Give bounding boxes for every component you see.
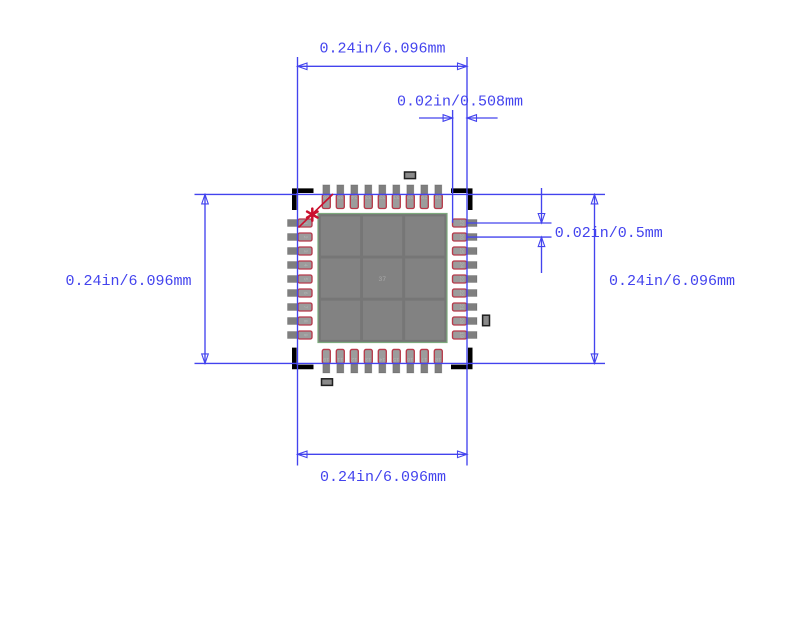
svg-text:0.24in/6.096mm: 0.24in/6.096mm bbox=[609, 273, 735, 290]
svg-text:27: 27 bbox=[458, 220, 464, 226]
pad 4 bbox=[288, 261, 313, 269]
svg-text:5: 5 bbox=[302, 277, 308, 280]
svg-text:0.24in/6.096mm: 0.24in/6.096mm bbox=[319, 41, 445, 58]
svg-text:12: 12 bbox=[351, 356, 357, 362]
svg-text:20: 20 bbox=[458, 318, 464, 324]
pad 24 bbox=[453, 261, 478, 269]
dimension top 0.24in/6.096mm bbox=[298, 41, 468, 70]
pad 30 bbox=[406, 185, 414, 209]
svg-text:22: 22 bbox=[458, 290, 464, 296]
pad 34 bbox=[350, 185, 358, 209]
pad 7 bbox=[288, 303, 313, 311]
silkscreen corner bracket bottom-right bbox=[451, 348, 473, 370]
extension line left vertical bbox=[297, 57, 299, 466]
pad 12 bbox=[350, 349, 358, 373]
dimension bottom 0.24in/6.096mm bbox=[298, 451, 468, 486]
silkscreen corner bracket top-left bbox=[292, 188, 314, 210]
extension line top horizontal bbox=[195, 193, 606, 195]
svg-text:23: 23 bbox=[458, 276, 464, 282]
pad 14 bbox=[378, 349, 386, 373]
pad 29 bbox=[420, 185, 428, 209]
thermal pad 37 bbox=[318, 214, 447, 343]
pad 8 bbox=[288, 317, 313, 325]
svg-text:4: 4 bbox=[302, 263, 308, 266]
svg-text:9: 9 bbox=[302, 333, 308, 336]
pad 31 bbox=[392, 185, 400, 209]
svg-text:15: 15 bbox=[393, 356, 399, 362]
extension line right vertical bbox=[466, 57, 468, 466]
svg-text:17: 17 bbox=[421, 356, 427, 362]
svg-text:6: 6 bbox=[302, 291, 308, 294]
svg-text:37: 37 bbox=[378, 276, 386, 283]
svg-text:0.24in/6.096mm: 0.24in/6.096mm bbox=[320, 469, 446, 486]
pad 9 bbox=[288, 331, 313, 339]
dimension pad length 0.02in/0.508mm bbox=[397, 94, 523, 122]
pad 32 bbox=[378, 185, 386, 209]
svg-text:26: 26 bbox=[458, 234, 464, 240]
pad 16 bbox=[406, 349, 414, 373]
pad 15 bbox=[392, 349, 400, 373]
component pad right (near pin 21) bbox=[483, 315, 490, 326]
dimension left 0.24in/6.096mm bbox=[65, 194, 208, 363]
pad 17 bbox=[420, 349, 428, 373]
pad 18 bbox=[434, 349, 442, 373]
pad 1 bbox=[288, 219, 313, 227]
pad 23 bbox=[453, 275, 478, 283]
pad 20 bbox=[453, 317, 478, 325]
silkscreen corner bracket bottom-left bbox=[292, 348, 314, 370]
extension line pad-toe vertical bbox=[452, 110, 454, 223]
pad 3 bbox=[288, 247, 313, 255]
pad 5 bbox=[288, 275, 313, 283]
svg-text:10: 10 bbox=[323, 356, 329, 362]
svg-text:0.24in/6.096mm: 0.24in/6.096mm bbox=[65, 273, 191, 290]
pad 33 bbox=[364, 185, 372, 209]
svg-text:18: 18 bbox=[435, 356, 441, 362]
svg-text:0.02in/0.508mm: 0.02in/0.508mm bbox=[397, 94, 523, 111]
pad 35 bbox=[336, 185, 344, 209]
pad 13 bbox=[364, 349, 372, 373]
svg-text:16: 16 bbox=[407, 356, 413, 362]
pad 21 bbox=[453, 303, 478, 311]
pad 25 bbox=[453, 247, 478, 255]
svg-text:25: 25 bbox=[458, 248, 464, 254]
pad 2 bbox=[288, 233, 313, 241]
pin 1 marker line bbox=[298, 194, 333, 228]
pad 6 bbox=[288, 289, 313, 297]
svg-text:21: 21 bbox=[458, 304, 464, 310]
svg-text:7: 7 bbox=[302, 305, 308, 308]
pad 22 bbox=[453, 289, 478, 297]
svg-text:11: 11 bbox=[337, 356, 343, 362]
svg-text:0.02in/0.5mm: 0.02in/0.5mm bbox=[555, 225, 663, 242]
svg-text:13: 13 bbox=[365, 356, 371, 362]
pad 26 bbox=[453, 233, 478, 241]
dimension pad pitch 0.02in/0.5mm bbox=[466, 188, 663, 273]
pad 27 bbox=[453, 219, 478, 227]
svg-text:8: 8 bbox=[302, 319, 308, 322]
pad 10 bbox=[322, 349, 330, 373]
pad 28 bbox=[434, 185, 442, 209]
component pad top (near pin 30) bbox=[405, 172, 416, 179]
dimension right 0.24in/6.096mm bbox=[591, 194, 735, 363]
component pad bottom-left (near pin 10) bbox=[322, 379, 333, 386]
pad 36 bbox=[322, 185, 330, 209]
svg-text:2: 2 bbox=[302, 235, 308, 238]
svg-text:19: 19 bbox=[458, 332, 464, 338]
silkscreen corner bracket top-right bbox=[451, 188, 473, 210]
pin 1 marker asterisk bbox=[307, 209, 317, 221]
svg-text:3: 3 bbox=[302, 249, 308, 252]
svg-text:24: 24 bbox=[458, 262, 464, 268]
pad 11 bbox=[336, 349, 344, 373]
pad 19 bbox=[453, 331, 478, 339]
svg-text:14: 14 bbox=[379, 356, 385, 362]
extension line bottom horizontal bbox=[195, 362, 606, 364]
